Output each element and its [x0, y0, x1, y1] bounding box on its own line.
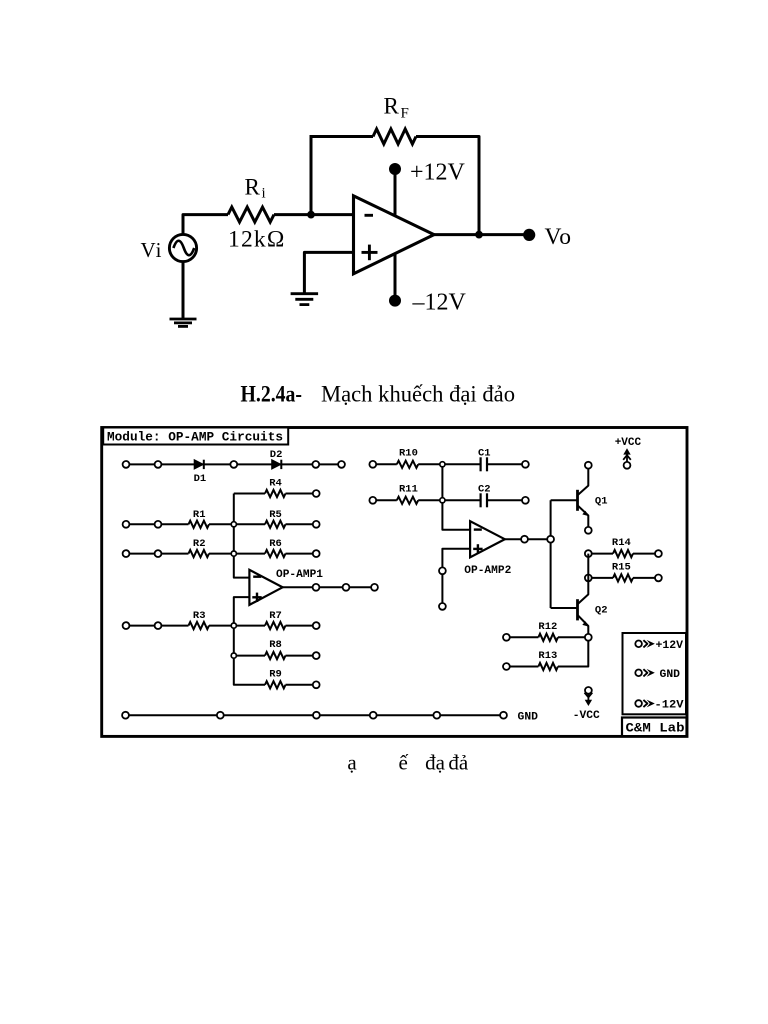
svg-text:R8: R8	[269, 639, 282, 651]
maker label box C&M Lab	[622, 718, 687, 737]
svg-text:C2: C2	[478, 483, 491, 495]
terminals R2 row	[123, 550, 162, 557]
node Vo output terminal	[523, 229, 535, 241]
svg-text:+12V: +12V	[656, 640, 684, 652]
node junction at inverting input	[307, 211, 315, 219]
terminal non-inverting mid	[439, 567, 446, 574]
svg-text:i: i	[262, 186, 266, 202]
resistor R12	[506, 634, 584, 641]
wire op-amp2 output	[505, 538, 551, 540]
resistor RF	[373, 129, 416, 144]
resistor R11	[373, 497, 481, 504]
legend GND terminal	[635, 669, 680, 681]
junction R1/bus	[231, 522, 236, 527]
op-amp U1	[354, 196, 435, 274]
svg-text:-12V: -12V	[655, 700, 684, 712]
junction R11/C2	[440, 498, 445, 503]
svg-text:C&M Lab: C&M Lab	[626, 722, 685, 736]
svg-text:OP-AMP2: OP-AMP2	[464, 565, 511, 577]
terminal R4	[313, 490, 320, 497]
wire bus to op-amp2 inverting input	[442, 464, 470, 530]
svg-text:R13: R13	[538, 650, 557, 662]
resistor R15	[588, 574, 658, 581]
svg-text:F: F	[401, 106, 409, 122]
partial caption glyphs (second figure caption, partially printed)	[347, 750, 469, 774]
wire base bus Q1/Q2	[550, 500, 552, 608]
resistor R8	[234, 652, 316, 659]
module title box	[103, 428, 288, 445]
power symbol +VCC	[615, 437, 642, 468]
svg-text:-VCC: -VCC	[573, 710, 600, 722]
resistor R5	[234, 521, 316, 528]
terminal R5	[313, 521, 320, 528]
capacitor C2	[481, 493, 526, 507]
svg-text:C1: C1	[478, 447, 491, 459]
junction R10/C1	[440, 462, 445, 467]
terminals R15	[585, 575, 662, 582]
wire Ri to inverting input	[274, 213, 354, 216]
resistor R10	[373, 461, 481, 468]
resistor R3	[126, 622, 234, 629]
svg-text:R14: R14	[612, 537, 631, 549]
resistor Ri	[228, 207, 274, 222]
node junction at output/feedback	[475, 231, 483, 239]
terminals diode row	[123, 461, 345, 468]
svg-text:đạ: đạ	[425, 750, 446, 774]
junction R2/bus	[231, 551, 236, 556]
terminals ground bus	[122, 712, 507, 719]
resistor R14	[588, 550, 658, 557]
ground (op-amp input)	[291, 294, 319, 305]
wire feedback left segment	[310, 135, 374, 138]
diode D1	[194, 460, 204, 469]
wire node up to feedback	[310, 137, 313, 215]
capacitor C1	[481, 457, 526, 471]
-12V supply rail	[389, 254, 401, 307]
svg-text:R9: R9	[269, 668, 282, 680]
svg-text:Vi: Vi	[141, 238, 163, 262]
voltage source Vi	[169, 234, 196, 261]
terminals R1 row	[123, 521, 162, 528]
terminal R7	[313, 622, 320, 629]
junction R3/bus	[231, 623, 236, 628]
resistor R13	[506, 663, 558, 670]
op-amp OP-AMP2	[470, 521, 505, 557]
diode D2	[272, 460, 282, 469]
resistor R6	[234, 550, 316, 557]
terminals R3 row	[123, 622, 162, 629]
svg-text:R4: R4	[269, 477, 282, 489]
resistor R1	[126, 521, 234, 528]
wire output	[434, 233, 524, 236]
junction R8/bus	[231, 653, 236, 658]
wire R12 node down to R13	[558, 637, 588, 666]
svg-text:R6: R6	[269, 538, 282, 550]
svg-text:R5: R5	[269, 509, 282, 521]
wire op-amp1 non-inverting bus	[234, 597, 265, 685]
svg-text:+12V: +12V	[410, 160, 466, 186]
terminal R8	[313, 652, 320, 659]
svg-text:Q2: Q2	[595, 605, 608, 617]
svg-text:R1: R1	[193, 509, 206, 521]
op-amp OP-AMP1	[249, 570, 282, 605]
svg-text:Vo: Vo	[545, 224, 572, 250]
legend -12V terminal	[635, 700, 684, 712]
+12V supply rail	[389, 163, 401, 216]
terminals op-amp1 output	[313, 584, 378, 591]
resistor R9	[265, 681, 316, 688]
terminal R13	[503, 663, 510, 670]
svg-text:R: R	[245, 175, 261, 200]
svg-text:D1: D1	[194, 473, 207, 485]
svg-text:GND: GND	[660, 669, 681, 681]
svg-text:H.2.4a-: H.2.4a-	[241, 382, 303, 407]
junction Q2 emitter / R12	[585, 634, 592, 641]
svg-text:–12V: –12V	[412, 290, 467, 316]
svg-text:R10: R10	[399, 447, 418, 459]
module board outer border	[102, 428, 687, 737]
op-amp plus pin mark	[362, 245, 378, 261]
junction output/base bus	[547, 536, 554, 543]
wire Q1 base	[551, 499, 577, 501]
legend box	[623, 633, 687, 714]
resistor R7	[234, 622, 316, 629]
svg-text:GND: GND	[518, 711, 539, 723]
terminals R10 row	[369, 461, 528, 468]
legend +12V terminal	[635, 640, 683, 652]
svg-text:OP-AMP1: OP-AMP1	[276, 569, 323, 581]
power symbol -VCC	[573, 687, 600, 722]
terminal non-inverting end	[439, 603, 446, 610]
wire R14/R15 to Q2 collector	[578, 554, 589, 605]
op-amp minus pin mark	[365, 214, 374, 217]
svg-text:đả: đả	[448, 750, 469, 774]
terminal Q1 collector	[585, 462, 592, 469]
svg-text:ạ: ạ	[347, 750, 357, 774]
label Ri	[245, 175, 266, 202]
terminal R12	[503, 634, 510, 641]
svg-text:Q1: Q1	[595, 495, 608, 507]
resistor R2	[126, 550, 234, 557]
label RF	[384, 94, 409, 122]
svg-text:12kΩ: 12kΩ	[228, 227, 286, 253]
wire ground bus row	[126, 714, 505, 716]
transistor Q1	[578, 469, 589, 527]
terminals R14	[585, 550, 662, 557]
svg-text:Mạch khuếch đại đảo: Mạch khuếch đại đảo	[321, 382, 515, 407]
svg-text:R12: R12	[538, 621, 557, 633]
wire non-inverting input to ground	[304, 252, 353, 292]
svg-text:R2: R2	[193, 538, 206, 550]
wire op-amp1 output	[283, 586, 375, 588]
svg-text:+VCC: +VCC	[615, 437, 642, 449]
svg-text:R15: R15	[612, 562, 631, 574]
wire Q2 base	[551, 607, 577, 609]
ground (source Vi)	[170, 319, 197, 326]
terminal R9	[313, 681, 320, 688]
terminal R6	[313, 550, 320, 557]
terminal op-amp2 output	[521, 536, 528, 543]
terminal Q1 emitter	[585, 527, 592, 534]
wire feedback right segment down to output	[416, 137, 479, 235]
svg-text:R: R	[384, 94, 400, 119]
transistor Q2	[578, 599, 589, 634]
svg-text:R11: R11	[399, 483, 418, 495]
wire Vi to Ri	[183, 215, 228, 235]
wire Vi to ground	[182, 262, 185, 320]
wire bus to op-amp1 inverting input	[234, 494, 250, 578]
svg-text:ế: ế	[399, 750, 409, 774]
wire op-amp2 non-inverting input	[442, 549, 470, 607]
terminals R11 row	[369, 497, 528, 504]
resistor R4	[234, 490, 316, 497]
svg-text:R7: R7	[269, 610, 282, 622]
svg-text:Module: OP-AMP Circuits: Module: OP-AMP Circuits	[107, 431, 283, 445]
svg-text:R3: R3	[193, 610, 206, 622]
svg-text:D2: D2	[270, 449, 283, 461]
wire diode row	[126, 463, 342, 465]
